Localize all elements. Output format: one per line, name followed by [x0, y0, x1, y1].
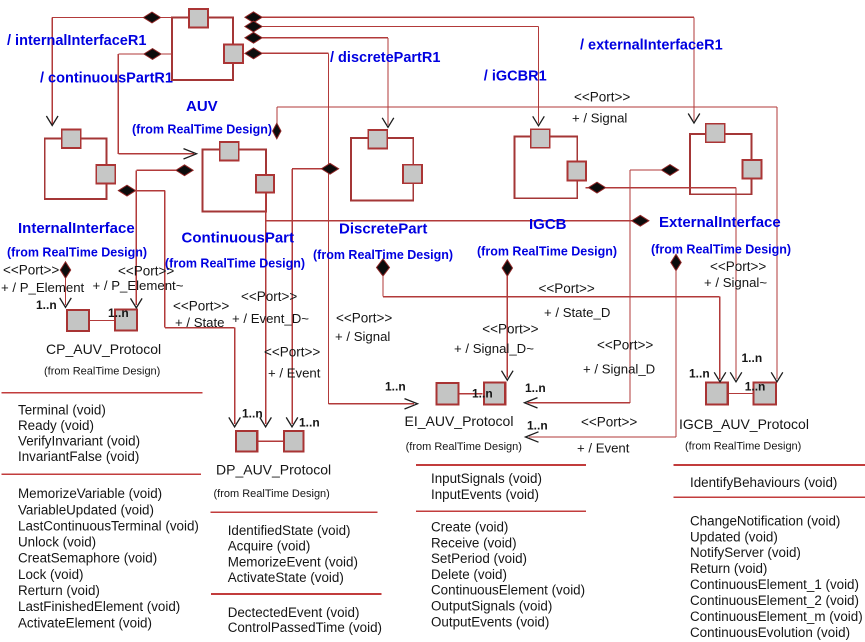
- svg-text:<<Port>>: <<Port>>: [581, 415, 637, 430]
- svg-text:Updated (void): Updated (void): [690, 529, 778, 544]
- svg-text:(from RealTime Design): (from RealTime Design): [7, 246, 147, 260]
- svg-text:ContinuousElement_2 (void): ContinuousElement_2 (void): [690, 593, 859, 608]
- svg-text:CreatSemaphore (void): CreatSemaphore (void): [18, 551, 157, 566]
- svg-text:(from RealTime Design): (from RealTime Design): [44, 366, 160, 378]
- svg-text:<<Port>>: <<Port>>: [241, 289, 297, 304]
- svg-text:InputSignals (void): InputSignals (void): [431, 471, 542, 486]
- svg-text:+ / Signal: + / Signal: [335, 329, 390, 344]
- svg-text:ContinuousElement_1 (void): ContinuousElement_1 (void): [690, 577, 859, 592]
- svg-text:ContinuousPart: ContinuousPart: [182, 230, 295, 247]
- svg-text:+ / Event: + / Event: [268, 366, 321, 381]
- svg-text:LastContinuousTerminal (void): LastContinuousTerminal (void): [18, 518, 199, 533]
- svg-text:<<Port>>: <<Port>>: [482, 322, 538, 337]
- svg-text:ActivateState (void): ActivateState (void): [228, 570, 344, 585]
- svg-text:1..n: 1..n: [385, 380, 406, 394]
- svg-text:DP_AUV_Protocol: DP_AUV_Protocol: [216, 462, 331, 478]
- svg-text:ContinuousElement_m (void): ContinuousElement_m (void): [690, 609, 863, 624]
- svg-text:Delete (void): Delete (void): [431, 567, 507, 582]
- svg-text:<<Port>>: <<Port>>: [3, 263, 59, 278]
- svg-text:(from RealTime Design): (from RealTime Design): [477, 245, 617, 259]
- svg-text:1..n: 1..n: [242, 407, 263, 421]
- svg-text:DiscretePart: DiscretePart: [339, 221, 427, 238]
- svg-text:Create (void): Create (void): [431, 520, 508, 535]
- svg-text:IdentifyBehaviours (void): IdentifyBehaviours (void): [690, 475, 837, 490]
- svg-text:1..n: 1..n: [745, 380, 766, 394]
- svg-text:/ externalInterfaceR1: / externalInterfaceR1: [580, 38, 723, 54]
- svg-text:/ iGCBR1: / iGCBR1: [484, 69, 547, 85]
- svg-text:1..n: 1..n: [36, 298, 57, 312]
- svg-text:IdentifiedState (void): IdentifiedState (void): [228, 523, 351, 538]
- svg-text:Rerturn (void): Rerturn (void): [18, 583, 100, 598]
- svg-text:1..n: 1..n: [108, 306, 129, 320]
- svg-text:SetPeriod (void): SetPeriod (void): [431, 551, 527, 566]
- svg-text:LastFinishedElement (void): LastFinishedElement (void): [18, 599, 180, 614]
- svg-text:+ / Event: + / Event: [577, 441, 630, 456]
- svg-text:+ / Signal~: + / Signal~: [704, 275, 767, 290]
- svg-text:<<Port>>: <<Port>>: [336, 311, 392, 326]
- svg-text:/ discretePartR1: / discretePartR1: [330, 50, 440, 66]
- svg-text:<<Port>>: <<Port>>: [539, 281, 595, 296]
- svg-text:(from RealTime Design): (from RealTime Design): [214, 488, 330, 500]
- svg-text:Unlock (void): Unlock (void): [18, 535, 96, 550]
- svg-text:ChangeNotification (void): ChangeNotification (void): [690, 513, 840, 528]
- svg-text:OutputSignals (void): OutputSignals (void): [431, 599, 552, 614]
- svg-text:1..n: 1..n: [299, 416, 320, 430]
- svg-text:CP_AUV_Protocol: CP_AUV_Protocol: [46, 341, 161, 357]
- svg-text:1..n: 1..n: [472, 387, 493, 401]
- svg-text:<<Port>>: <<Port>>: [597, 338, 653, 353]
- svg-text:EI_AUV_Protocol: EI_AUV_Protocol: [405, 413, 514, 429]
- svg-text:Ready (void): Ready (void): [18, 418, 94, 433]
- svg-text:/ continuousPartR1: / continuousPartR1: [40, 71, 173, 87]
- svg-text:DectectedEvent (void): DectectedEvent (void): [228, 605, 360, 620]
- svg-text:MemorizeVariable (void): MemorizeVariable (void): [18, 486, 162, 501]
- svg-text:1..n: 1..n: [527, 419, 548, 433]
- svg-text:NotifyServer (void): NotifyServer (void): [690, 545, 801, 560]
- svg-text:+ / Signal_D: + / Signal_D: [583, 362, 655, 377]
- svg-text:AUV: AUV: [186, 98, 218, 115]
- svg-text:(from RealTime Design): (from RealTime Design): [313, 248, 453, 262]
- svg-text:ContinuousEvolution (void): ContinuousEvolution (void): [690, 625, 850, 640]
- svg-text:IGCB_AUV_Protocol: IGCB_AUV_Protocol: [679, 416, 809, 432]
- svg-text:InternalInterface: InternalInterface: [18, 220, 135, 237]
- svg-text:ContinuousElement (void): ContinuousElement (void): [431, 583, 585, 598]
- svg-text:Terminal (void): Terminal (void): [18, 403, 106, 418]
- svg-text:Receive (void): Receive (void): [431, 535, 517, 550]
- svg-text:<<Port>>: <<Port>>: [173, 299, 229, 314]
- svg-text:1..n: 1..n: [742, 351, 763, 365]
- svg-text:<<Port>>: <<Port>>: [710, 259, 766, 274]
- svg-text:1..n: 1..n: [689, 367, 710, 381]
- svg-text:(from RealTime Design): (from RealTime Design): [132, 123, 272, 137]
- svg-text:ExternalInterface: ExternalInterface: [659, 214, 781, 231]
- svg-text:1..n: 1..n: [525, 381, 546, 395]
- svg-text:Acquire (void): Acquire (void): [228, 539, 311, 554]
- svg-text:Return (void): Return (void): [690, 561, 767, 576]
- svg-text:<<Port>>: <<Port>>: [118, 264, 174, 279]
- svg-text:+ / Signal_D~: + / Signal_D~: [454, 341, 534, 356]
- svg-text:OutputEvents (void): OutputEvents (void): [431, 614, 549, 629]
- svg-text:(from RealTime Design): (from RealTime Design): [406, 441, 522, 453]
- svg-text:<<Port>>: <<Port>>: [264, 345, 320, 360]
- svg-text:(from RealTime Design): (from RealTime Design): [685, 441, 801, 453]
- svg-text:+ / Signal: + / Signal: [572, 111, 627, 126]
- svg-text:Lock (void): Lock (void): [18, 567, 84, 582]
- svg-text:+ / State_D: + / State_D: [544, 305, 610, 320]
- svg-text:+ / P_Element: + / P_Element: [1, 280, 85, 295]
- svg-text:/ internalInterfaceR1: / internalInterfaceR1: [7, 33, 146, 49]
- svg-text:(from RealTime Design): (from RealTime Design): [651, 243, 791, 257]
- svg-text:<<Port>>: <<Port>>: [574, 90, 630, 105]
- svg-text:MemorizeEvent (void): MemorizeEvent (void): [228, 554, 358, 569]
- svg-text:InputEvents (void): InputEvents (void): [431, 487, 539, 502]
- svg-text:+ / Event_D~: + / Event_D~: [232, 311, 309, 326]
- svg-text:+ / State: + / State: [175, 315, 225, 330]
- svg-text:(from RealTime Design): (from RealTime Design): [165, 257, 305, 271]
- svg-text:+ / P_Element~: + / P_Element~: [93, 278, 184, 293]
- svg-text:ActivateElement (void): ActivateElement (void): [18, 615, 152, 630]
- svg-text:ControlPassedTime (void): ControlPassedTime (void): [228, 620, 382, 635]
- svg-text:InvariantFalse (void): InvariantFalse (void): [18, 449, 139, 464]
- svg-text:VariableUpdated (void): VariableUpdated (void): [18, 502, 154, 517]
- svg-text:IGCB: IGCB: [529, 216, 567, 233]
- svg-text:VerifyInvariant (void): VerifyInvariant (void): [18, 434, 140, 449]
